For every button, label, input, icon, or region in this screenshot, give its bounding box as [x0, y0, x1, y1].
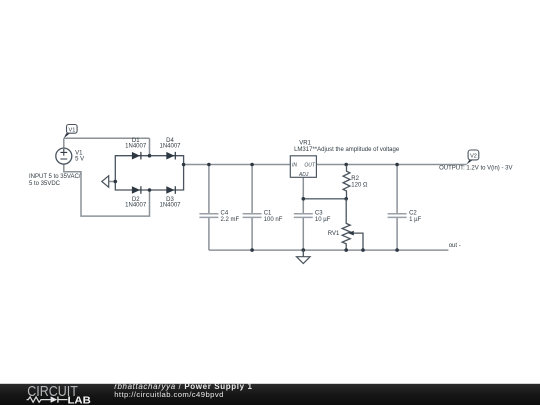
node junction RV1 bottom — [344, 248, 348, 252]
ground — [297, 250, 311, 263]
svg-text:5 to 35VDC: 5 to 35VDC — [29, 181, 61, 187]
wire top rail V1 to bridge — [64, 137, 150, 139]
capacitor C4 — [199, 211, 239, 224]
svg-text:RV1: RV1 — [328, 231, 340, 237]
node junction C4 top — [207, 163, 211, 167]
svg-text:INPUT 5 to 35VAC/: INPUT 5 to 35VAC/ — [29, 174, 81, 180]
svg-text:R2: R2 — [351, 176, 359, 182]
wire bridge right to LM317 IN — [184, 164, 291, 166]
capacitor C3 — [294, 211, 331, 224]
svg-text:1N4007: 1N4007 — [125, 203, 147, 209]
svg-text:10 µF: 10 µF — [315, 217, 331, 223]
svg-text:C1: C1 — [264, 211, 272, 217]
text INPUT annotation — [29, 174, 81, 187]
node junction ADJ right — [344, 197, 348, 201]
capacitor C2 — [388, 211, 422, 224]
diode D1 — [125, 138, 147, 160]
node junction R2 top — [344, 163, 348, 167]
wire C3 leads — [302, 199, 304, 250]
node junction bridge bottom — [148, 188, 152, 192]
node junction C1 top — [250, 163, 254, 167]
wire ADJ rail — [303, 198, 346, 200]
svg-text:1N4007: 1N4007 — [159, 144, 181, 150]
footer bar — [0, 382, 540, 405]
svg-text:V1: V1 — [68, 127, 75, 133]
wire V1 minus to bridge bottom — [64, 164, 150, 216]
svg-text:out -: out - — [449, 243, 461, 249]
regulator VR1 LM317 — [290, 141, 400, 179]
logo resistor glyph — [27, 397, 51, 402]
wire bridge top stub — [149, 138, 151, 155]
logo diode glyph — [51, 396, 58, 402]
svg-text:VR1: VR1 — [299, 141, 311, 147]
svg-text:IN: IN — [292, 162, 297, 168]
node junction bridge left gnd — [114, 180, 118, 184]
node junction bridge top — [148, 154, 152, 158]
wire LM317 OUT to V2 flag — [316, 164, 466, 166]
wire C1 leads — [251, 165, 253, 251]
capacitor C1 — [243, 211, 283, 224]
svg-text:C2: C2 — [409, 211, 417, 217]
svg-text:ADJ: ADJ — [298, 172, 309, 178]
potentiometer RV1 — [328, 199, 363, 250]
svg-text:5 V: 5 V — [75, 157, 84, 163]
wire V1 plus stub — [63, 138, 65, 148]
voltage source V1 — [56, 148, 84, 164]
svg-text:100 nF: 100 nF — [264, 217, 283, 223]
node junction bridge right out — [182, 163, 186, 167]
node junction C2 bottom — [395, 248, 399, 252]
svg-text:C3: C3 — [315, 211, 323, 217]
node junction ADJ left — [302, 197, 306, 201]
wire LM317 ADJ down — [302, 177, 304, 199]
svg-text:C4: C4 — [221, 211, 229, 217]
svg-text:1N4007: 1N4007 — [159, 203, 181, 209]
svg-text:OUT: OUT — [304, 162, 316, 168]
diode D2 — [125, 186, 147, 208]
svg-text:1N4007: 1N4007 — [125, 144, 147, 150]
node V2 flag — [467, 150, 479, 164]
svg-text:1 µF: 1 µF — [409, 217, 421, 223]
diode D4 — [159, 138, 181, 160]
svg-text:http://circuitlab.com/c49bpvd: http://circuitlab.com/c49bpvd — [114, 390, 224, 399]
svg-text:LAB: LAB — [68, 396, 91, 405]
resistor R2 — [343, 165, 368, 199]
node junction RV1 wiper bottom — [361, 248, 365, 252]
ground (rotated, at bridge left) — [102, 176, 109, 187]
svg-text:LM317**Adjust the amplitude of: LM317**Adjust the amplitude of voltage — [294, 147, 400, 153]
svg-text:V2: V2 — [470, 154, 477, 160]
wire C4 leads — [208, 165, 210, 251]
svg-text:120 Ω: 120 Ω — [351, 183, 368, 189]
wire C2 leads — [396, 165, 398, 251]
rectifier bridge frame — [115, 156, 183, 190]
node junction C3 gnd bottom — [302, 248, 306, 252]
svg-text:2.2 mF: 2.2 mF — [221, 217, 240, 223]
wire ground stub at bridge left — [109, 181, 116, 183]
node junction C2 top — [395, 163, 399, 167]
svg-text:OUTPUT: 1.2V to V(in) - 3V: OUTPUT: 1.2V to V(in) - 3V — [439, 166, 512, 172]
diode D3 — [159, 186, 181, 208]
wire bottom rail — [209, 249, 449, 251]
node junction C1 bottom — [250, 248, 254, 252]
node V1 flag — [64, 125, 77, 139]
